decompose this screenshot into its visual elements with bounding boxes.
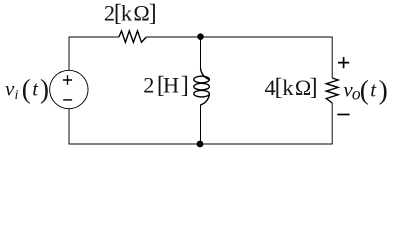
svg-text:): ) — [40, 74, 49, 104]
label 2[kΩ] — [104, 1, 157, 27]
svg-text:(: ( — [22, 74, 31, 104]
wire middle branch upper — [200, 37, 202, 69]
inductor L1 coil loop 2 — [194, 83, 210, 90]
label vo(t) — [343, 74, 388, 105]
node junction dot bottom — [197, 141, 204, 148]
inductor L1 coil loop 1 — [194, 76, 210, 83]
plus sign inside source — [63, 75, 72, 85]
node junction dot top — [197, 33, 204, 40]
svg-text:k: k — [282, 75, 294, 100]
label vi(t) — [5, 74, 49, 104]
minus sign inside source — [63, 99, 72, 101]
wire top-right segment and right rail upper — [146, 37, 332, 78]
plus sign output — [338, 57, 349, 68]
inductor L1 coil loop 3 — [194, 90, 210, 97]
inductor L1 entry curve — [201, 68, 210, 80]
svg-text:k: k — [121, 1, 133, 26]
resistor R1 2[kΩ] zigzag — [119, 31, 146, 42]
resistor R2 4[kΩ] zigzag — [326, 78, 338, 103]
svg-text:H: H — [163, 73, 179, 98]
wire top-left segment and left rail upper — [69, 37, 119, 71]
svg-text:]: ] — [310, 74, 318, 100]
minus sign output — [337, 114, 349, 116]
svg-text:t: t — [32, 77, 39, 101]
svg-text:t: t — [370, 77, 377, 101]
wire middle branch lower — [200, 105, 202, 145]
svg-text:Ω: Ω — [133, 1, 149, 26]
voltage source V1 circle — [50, 70, 88, 108]
label 4[kΩ] — [265, 74, 318, 100]
inductor L1 exit curve — [201, 94, 210, 105]
svg-text:i: i — [14, 88, 18, 103]
wire left rail lower and bottom wire — [69, 103, 332, 144]
label 2[H] — [143, 72, 189, 98]
svg-text:): ) — [379, 74, 388, 105]
svg-text:(: ( — [360, 74, 369, 105]
svg-text:]: ] — [149, 1, 157, 27]
svg-text:]: ] — [181, 72, 189, 98]
svg-text:2: 2 — [143, 73, 154, 98]
